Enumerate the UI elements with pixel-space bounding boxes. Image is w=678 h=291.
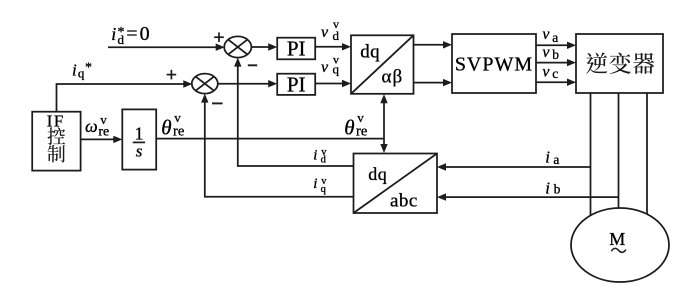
svg-text:re: re [98,125,109,140]
svg-text:i: i [313,176,317,192]
svg-text:M: M [609,229,625,249]
svg-text:v: v [321,147,327,158]
svg-text:v: v [542,26,550,43]
svg-text:v: v [100,112,107,127]
svg-text:abc: abc [390,191,418,212]
svg-text:a: a [553,152,559,167]
svg-text:b: b [554,182,561,197]
svg-text:i: i [72,60,77,79]
svg-text:c: c [552,66,558,81]
svg-text:1: 1 [135,124,144,144]
svg-text:v: v [321,59,329,76]
svg-text:a: a [552,30,558,45]
svg-text:v: v [321,24,329,41]
svg-text:=0: =0 [126,23,151,45]
svg-text:v: v [333,52,339,66]
svg-text:v: v [321,176,327,187]
svg-text:re: re [173,124,184,140]
svg-text:SVPWM: SVPWM [455,53,533,75]
svg-text:ω: ω [85,116,98,136]
svg-text:dq: dq [360,41,380,62]
svg-text:PI: PI [287,72,306,96]
svg-text:v: v [357,110,364,125]
svg-text:v: v [542,63,550,80]
svg-text:b: b [552,47,559,62]
svg-text:IF: IF [47,111,65,130]
svg-text:PI: PI [287,36,306,60]
svg-text:v: v [542,44,550,61]
svg-text:q: q [78,66,85,81]
svg-text:*: * [85,61,92,76]
svg-text:θ: θ [344,116,354,140]
svg-text:i: i [545,178,550,197]
svg-text:v: v [333,17,339,31]
svg-text:*: * [118,25,125,40]
svg-text:θ: θ [161,116,171,140]
svg-text:αβ: αβ [382,66,404,87]
svg-text:re: re [356,124,367,140]
svg-text:i: i [111,24,116,44]
svg-text:s: s [136,142,143,161]
svg-text:dq: dq [368,164,387,184]
svg-text:i: i [313,147,317,163]
svg-text:v: v [174,110,181,125]
svg-text:i: i [545,148,550,167]
